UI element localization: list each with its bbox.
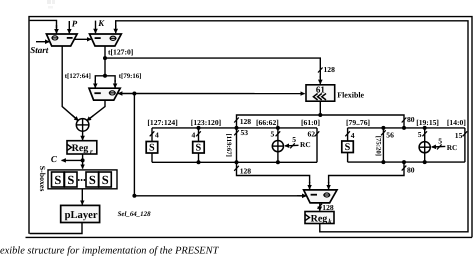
S-boxes row bbox=[38, 166, 117, 192]
svg-text:S: S bbox=[345, 142, 351, 153]
svg-text:[19:15]: [19:15] bbox=[416, 118, 439, 127]
svg-text:[79..76]: [79..76] bbox=[346, 118, 370, 127]
svg-text:S: S bbox=[149, 143, 155, 154]
svg-text:56: 56 bbox=[386, 131, 394, 140]
mux M4 bbox=[304, 190, 337, 203]
faint cropped text remnant top bbox=[47, 0, 55, 9]
svg-text:[123:120]: [123:120] bbox=[191, 118, 221, 127]
node C output bbox=[51, 154, 85, 164]
svg-text:[127:124]: [127:124] bbox=[147, 118, 177, 127]
svg-text:pLayer: pLayer bbox=[65, 210, 98, 221]
svg-text:62: 62 bbox=[308, 129, 316, 138]
rotate block 61 <<< Flexible bbox=[306, 85, 365, 102]
svg-text:[66:62]: [66:62] bbox=[256, 118, 279, 127]
svg-text:15: 15 bbox=[455, 131, 463, 140]
svg-text:128: 128 bbox=[240, 167, 252, 176]
svg-text:Flexible: Flexible bbox=[337, 90, 364, 99]
wire Reg_k feedback loop bbox=[116, 21, 468, 232]
mux M3 bbox=[89, 88, 120, 100]
sbox L1 bbox=[146, 128, 159, 162]
wire left subckt 128 out bbox=[234, 162, 309, 189]
svg-text:4: 4 bbox=[351, 131, 355, 140]
wire t split bbox=[65, 73, 142, 88]
svg-text:S-boxes: S-boxes bbox=[38, 166, 47, 192]
wire 62-bit passthrough bbox=[308, 128, 320, 162]
svg-text:80: 80 bbox=[407, 166, 415, 175]
wire 15-bit passthrough bbox=[455, 128, 467, 162]
wire t bus to rotate block bbox=[105, 58, 335, 84]
svg-text:[14:0]: [14:0] bbox=[447, 118, 466, 127]
svg-text:Reg: Reg bbox=[311, 213, 328, 224]
svg-text:S: S bbox=[54, 173, 61, 187]
wire mux M1 output bbox=[62, 46, 78, 121]
svg-text:Reg: Reg bbox=[72, 143, 89, 154]
wire select M1 to M2 bbox=[74, 38, 91, 40]
wire Reg_r to S-boxes bbox=[82, 160, 84, 168]
svg-text:C: C bbox=[51, 154, 58, 164]
svg-text:5: 5 bbox=[271, 129, 275, 138]
register Reg_r bbox=[67, 141, 97, 156]
wire S-boxes to pLayer bbox=[81, 189, 83, 205]
svg-text:t[127:0]: t[127:0] bbox=[108, 48, 133, 57]
wire pLayer feedback loop (shares left frame edge) bbox=[30, 20, 82, 233]
svg-text:t[127:64]: t[127:64] bbox=[65, 73, 91, 80]
wire right subckt 80 out bbox=[329, 162, 415, 189]
wire mux M3 output bbox=[87, 100, 105, 121]
svg-text:[75:20]: [75:20] bbox=[374, 136, 381, 156]
wire xor to Reg_r bbox=[82, 131, 84, 140]
wire 53-bit passthrough [119:67] bbox=[225, 128, 248, 162]
wire Sel_64_128 net bbox=[118, 92, 307, 219]
svg-text:5: 5 bbox=[292, 135, 296, 144]
left subcircuit bus rails bbox=[147, 118, 320, 164]
right subcircuit bus rails bbox=[346, 118, 466, 164]
svg-text:exible structure for implement: exible structure for implementation of t… bbox=[0, 246, 220, 257]
node t[127:0] bbox=[103, 46, 133, 76]
pLayer block bbox=[61, 205, 100, 222]
svg-text:S: S bbox=[67, 173, 74, 187]
svg-text:4: 4 bbox=[155, 131, 159, 140]
svg-text:K: K bbox=[97, 18, 105, 28]
wire 56-bit passthrough [75:20] bbox=[374, 128, 394, 162]
svg-text:80: 80 bbox=[407, 115, 415, 124]
svg-text:4: 4 bbox=[192, 131, 196, 140]
svg-text:128: 128 bbox=[322, 203, 334, 212]
xor gate left RC bbox=[271, 128, 311, 162]
svg-text:RC: RC bbox=[300, 140, 311, 149]
svg-text:128: 128 bbox=[324, 65, 336, 74]
wire K input bbox=[96, 18, 106, 33]
svg-text:61: 61 bbox=[316, 85, 326, 95]
svg-text:Start: Start bbox=[30, 45, 49, 55]
caption text bbox=[0, 246, 220, 257]
signal Start bbox=[30, 42, 49, 55]
svg-text:r: r bbox=[90, 148, 93, 155]
wire P input bbox=[69, 18, 78, 33]
sbox R1 bbox=[342, 128, 355, 162]
sbox L2 bbox=[192, 128, 205, 162]
svg-text:S: S bbox=[89, 173, 96, 187]
wire 61 out to split bus bbox=[234, 101, 415, 128]
svg-text:t[79:16]: t[79:16] bbox=[119, 73, 142, 80]
svg-text:S: S bbox=[102, 173, 109, 187]
svg-text:[61:0]: [61:0] bbox=[301, 118, 320, 127]
xor gate main bbox=[76, 119, 89, 132]
svg-text:RC: RC bbox=[447, 143, 458, 152]
svg-text:128: 128 bbox=[240, 117, 252, 126]
xor gate right RC bbox=[418, 128, 458, 162]
svg-text:Sel_64_128: Sel_64_128 bbox=[118, 211, 151, 218]
svg-text:[119:67]: [119:67] bbox=[225, 134, 232, 157]
svg-text:S: S bbox=[196, 143, 202, 154]
mux M1 bbox=[46, 34, 77, 46]
svg-text:53: 53 bbox=[241, 128, 249, 137]
register Reg_k bbox=[305, 212, 334, 226]
wire mux M4 to Reg_k bbox=[318, 203, 334, 212]
svg-text:5: 5 bbox=[418, 130, 422, 139]
svg-text:P: P bbox=[72, 18, 78, 28]
svg-text:k: k bbox=[328, 219, 332, 226]
mux M2 bbox=[90, 34, 122, 46]
svg-text:5: 5 bbox=[438, 137, 442, 146]
